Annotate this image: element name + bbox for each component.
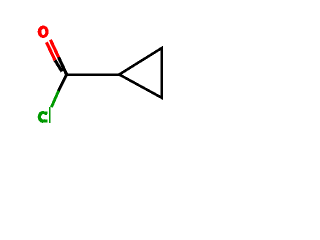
double bond C=O inner line red half xyxy=(47,42,56,60)
bond C-Cl green half xyxy=(51,91,58,107)
double bond C=O outer line black half xyxy=(59,57,67,74)
atom Cl letter l (drawn as bar) xyxy=(49,107,51,123)
double bond C=O inner line black half xyxy=(55,60,62,71)
atom O (drawn as bold ring glyph) xyxy=(38,26,49,38)
bond C-Cl black half xyxy=(59,75,67,91)
atom Cl letter C top serif bar xyxy=(43,111,48,114)
double bond C=O outer line red half xyxy=(50,40,58,58)
atom Cl letter C opening notch xyxy=(45,115,48,120)
cyclopropane ring xyxy=(119,48,162,98)
bond C-C (carbonyl C to ring) xyxy=(67,73,120,76)
atom Cl letter C (drawn as bold open ring glyph) xyxy=(38,111,48,123)
atom Cl letter C bottom serif bar xyxy=(43,120,48,123)
